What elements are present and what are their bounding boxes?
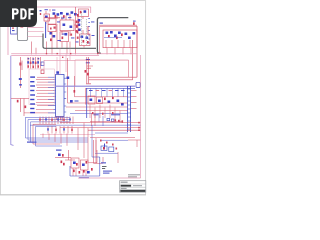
capacitor C612b: [118, 32, 121, 35]
wire: B+ loop left leg: [87, 57, 89, 84]
capacitor C633: [108, 101, 111, 104]
connector CN604: [136, 82, 140, 87]
capacitor C606b: [74, 13, 77, 16]
wire: long row red 2: [60, 127, 141, 129]
capacitor C618: [78, 29, 81, 32]
capacitor C635: [121, 103, 124, 106]
snubber box: [60, 32, 69, 42]
capacitor C625: [67, 77, 70, 80]
wire: red drop to bus: [32, 24, 85, 54]
regulator sub-circuit: [95, 146, 118, 153]
blue pin segs: [48, 77, 54, 113]
capacitor C607: [65, 33, 68, 36]
wire: drops to low-B section: [43, 123, 88, 162]
diode D602: [63, 15, 65, 18]
CRT drive component row 2: [47, 126, 73, 134]
transformer pin numbers: [88, 19, 90, 44]
resistor R612: [116, 37, 118, 40]
filter box 3: [48, 25, 56, 32]
wire: standby internals: [100, 27, 132, 54]
resistor R602: [62, 37, 64, 40]
wire: band drops: [91, 88, 124, 97]
label heater: [86, 83, 91, 84]
label +5V rail: [103, 171, 112, 174]
resistor R651: [76, 163, 78, 166]
wire: nested bus 5: [36, 127, 63, 147]
wire: long row red 3: [88, 129, 141, 131]
transistor Q601: [81, 36, 84, 39]
CRT drive component row 1: [39, 117, 73, 125]
wire: B+ inner rail: [132, 40, 134, 80]
junction marks on cluster: [50, 27, 79, 39]
resistor R656: [91, 168, 93, 171]
resistor R607: [76, 25, 78, 28]
IC601 right pins: [64, 78, 66, 112]
wire: connector stubs: [131, 91, 137, 109]
capacitor C605: [60, 12, 63, 15]
sub-board outline: [70, 157, 100, 176]
wire: loop bottom: [89, 77, 137, 80]
wire: left feed row: [11, 99, 29, 117]
capacitor C602b: [57, 13, 60, 16]
resistor R658: [63, 163, 65, 166]
standby supply box: [103, 30, 137, 48]
capacitor C606: [71, 11, 74, 14]
wire: red verticals right of IC: [68, 58, 75, 103]
wire: nested bus 1: [26, 117, 89, 138]
resistor R654: [79, 171, 81, 174]
audio block components: [90, 113, 141, 152]
wire: secondary rail double: [99, 25, 137, 26]
standby transformer box: [61, 150, 100, 178]
wire: secondary drops: [90, 105, 120, 123]
wire: primary feed vertical: [75, 7, 77, 54]
PDF badge: [0, 0, 37, 27]
capacitor C613: [125, 33, 128, 36]
component labels (blue text): [45, 9, 95, 42]
wire: B+ top rail: [75, 60, 129, 77]
wire: nested bus 3: [31, 122, 89, 142]
switcher box: [80, 34, 91, 46]
diode D612: [121, 34, 123, 37]
wire: pink link rows to AC cluster: [28, 28, 44, 37]
wire: blue drop: [91, 125, 93, 157]
wire: nested bus 4: [33, 124, 60, 144]
capacitor C610b: [53, 35, 56, 38]
wire: right frame vertical: [140, 55, 142, 178]
diode D633: [112, 97, 114, 100]
resistor R640: [17, 100, 19, 103]
wire: CN601 bottom purple lead: [11, 33, 27, 35]
capacitor C631: [90, 99, 93, 102]
pin name labels: [30, 76, 35, 113]
junction ticks on AC bus: [46, 53, 99, 58]
capacitor C652: [82, 164, 85, 167]
capacitor C651: [73, 162, 76, 165]
capacitor C653: [87, 171, 90, 174]
wire: blue band line: [86, 87, 135, 89]
capacitor C608: [86, 37, 89, 40]
wire: AC cluster interconnects: [44, 9, 88, 36]
title block pre-text: [128, 174, 140, 177]
capacitor C626: [70, 100, 73, 103]
capacitor C612: [114, 35, 117, 38]
label 12V: [100, 23, 103, 24]
wire: AC bus pair: [11, 54, 137, 56]
wire: B+ down legs: [94, 140, 103, 163]
connector CN603 (right bar): [128, 86, 131, 132]
shield group box top: [97, 18, 128, 54]
diode D604: [50, 39, 52, 42]
capacitor C611: [110, 31, 113, 34]
board outline (pink): [44, 60, 75, 86]
resistor R641: [25, 106, 27, 109]
wire: standby blue link: [104, 36, 122, 38]
wire: left purple rail: [11, 56, 14, 146]
wire: top frame line: [36, 6, 91, 8]
capacitor C601: [45, 16, 48, 19]
AC input cluster: filter box: [44, 14, 50, 21]
fuse F601 mark: [20, 26, 23, 28]
resistor R608: [76, 31, 78, 34]
diode D632: [104, 98, 106, 101]
wire: left rail stub: [85, 88, 87, 105]
resistor R645: [62, 154, 64, 157]
filter box 2: [48, 19, 56, 24]
label pin: [133, 21, 136, 22]
capacitor C614: [128, 37, 131, 40]
capacitor C603: [63, 24, 66, 27]
degauss resistor array: [27, 57, 40, 69]
resistor R603b: [87, 41, 89, 44]
AC inlet marks: [40, 10, 42, 15]
resistor R655: [83, 170, 85, 173]
note text: [102, 166, 107, 169]
wire: secondary rails: [66, 97, 128, 111]
capacitor on IC top: [56, 71, 59, 74]
capacitor C610: [50, 32, 53, 35]
resistor R652: [86, 161, 88, 164]
capacitor C620: [41, 62, 44, 66]
red blobs under rails: [92, 112, 114, 115]
capacitor C617: [78, 24, 81, 27]
wire: long row red 1: [60, 122, 141, 124]
IC601 bottom pins: [57, 117, 63, 122]
connector CN601: [11, 26, 18, 34]
resistor R611: [108, 35, 110, 38]
capacitor C645: [58, 154, 61, 157]
diode D611: [133, 22, 135, 25]
resistor R601: [77, 14, 79, 17]
resistor R601b: [78, 21, 80, 24]
title block: [120, 181, 146, 193]
wire: heater tap: [87, 66, 93, 68]
wire: verticals above IC: [57, 49, 70, 75]
resistor R603: [83, 40, 85, 43]
resistor R605 ladder: [19, 57, 22, 88]
wire: B+ right rail: [136, 26, 138, 77]
resistor R620: [41, 70, 44, 74]
transformer primary box: [79, 9, 89, 17]
resistor R604: [80, 11, 82, 14]
resistor R657: [61, 161, 63, 164]
IC601 left pins: [54, 77, 56, 113]
label sub: [75, 101, 79, 102]
label near heater: [86, 59, 90, 60]
resistor R625: [74, 90, 76, 93]
page background: [0, 0, 149, 198]
wire: transformer secondary stub: [55, 26, 88, 157]
bridge rectifier box: [60, 20, 74, 31]
wire: left frame vertical: [7, 25, 9, 55]
relay box (gray rounded): [18, 25, 28, 41]
capacitor C604: [70, 26, 73, 29]
diode D601: [55, 15, 57, 18]
capacitor C602: [53, 12, 56, 15]
resistor R660: [103, 147, 105, 150]
capacitor C609: [84, 10, 87, 13]
wire: purple bus band: [55, 85, 135, 87]
shield group box (dark gray polyline): [43, 34, 96, 49]
label B+155V: [101, 162, 106, 163]
wire: IC left pin rows red: [24, 77, 54, 113]
wire: blue feedback bar: [45, 22, 47, 38]
capacitor C616: [78, 19, 81, 22]
label row D951: [89, 90, 125, 91]
IC602 regulator: [106, 32, 109, 35]
transformer T601 core (dashed pair): [81, 12, 83, 45]
secondary rectifier box B: [97, 97, 103, 104]
wire: drop to title area: [117, 152, 119, 163]
capacitor C634: [117, 100, 120, 103]
capacitor C615: [133, 32, 136, 35]
wire: nested bus 2: [28, 120, 88, 140]
resistor R653: [73, 170, 75, 173]
sub-board outline box: [29, 69, 54, 105]
label Power SW: [94, 114, 121, 115]
page border: [0, 0, 145, 194]
wire: bottom frame: [78, 177, 141, 179]
resistor R606: [76, 21, 78, 24]
wire: top frame corner drop: [90, 7, 92, 13]
wire: long row blue: [30, 124, 141, 126]
wire: CRT bottom rail: [40, 134, 95, 136]
junction marks at frame: [138, 122, 140, 131]
wire: band blue drop: [86, 88, 88, 118]
capacitor C632: [98, 100, 101, 103]
low-B regulator cluster: [56, 150, 75, 161]
IC601 main regulator: [56, 75, 65, 117]
secondary rectifier box A: [88, 96, 95, 104]
label DC MOTOR: [27, 142, 37, 143]
capacitor C605b: [66, 13, 69, 16]
